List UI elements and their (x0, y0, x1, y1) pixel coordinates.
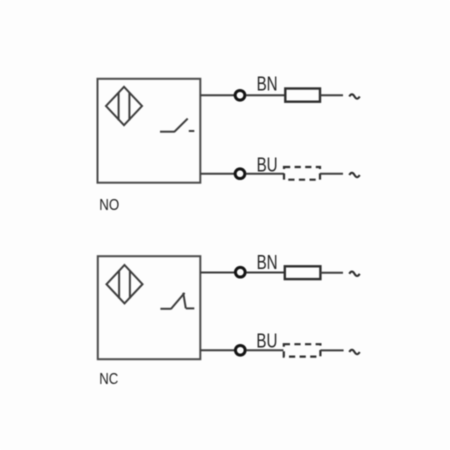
AC source tilde (BU, NC) (349, 350, 359, 354)
wire: load to source (BU, NO) (320, 173, 343, 175)
terminal circle BU (NO) (235, 169, 245, 179)
load resistor dashed BU (NC) (284, 344, 321, 356)
NC switch contact (160, 293, 194, 309)
load resistor BN (NO) (285, 89, 320, 102)
wire: box to BU terminal (NO) (200, 173, 234, 175)
wire: load to source (BN, NC) (320, 272, 343, 274)
terminal circle BN (NC) (235, 267, 245, 277)
svg-text:BN: BN (257, 74, 278, 96)
svg-text:NC: NC (99, 371, 118, 388)
sensor body box (NC) (98, 256, 201, 359)
sensor body box (NO) (98, 79, 201, 183)
wire: terminal to load (BU, NO) (246, 173, 284, 175)
load resistor dashed BU (NO) (284, 167, 320, 180)
wire: terminal to load (BU, NC) (246, 349, 283, 351)
AC source tilde (BN, NC) (349, 272, 359, 276)
proximity sensor symbol (diamond) NO (106, 87, 142, 125)
wire: load to source (BU, NC) (320, 349, 343, 351)
load resistor BN (NC) (285, 266, 321, 279)
proximity sensor symbol (diamond) NC (107, 265, 143, 303)
terminal circle BN (NO) (235, 90, 245, 100)
wire: box to BU terminal (NC) (200, 349, 234, 351)
AC source tilde (BN, NO) (349, 94, 359, 98)
svg-text:BU: BU (256, 330, 277, 352)
svg-text:NO: NO (99, 197, 119, 214)
wire: load to source (BN, NO) (320, 94, 343, 96)
svg-text:BN: BN (257, 252, 278, 274)
wire: terminal to load (BN, NO) (246, 94, 285, 96)
AC source tilde (BU, NO) (349, 173, 359, 177)
terminal circle BU (NC) (235, 345, 245, 355)
wire: box to BN terminal (NC) (200, 272, 234, 274)
wire: terminal to load (BN, NC) (246, 272, 285, 274)
wire: box to BN terminal (NO) (200, 94, 234, 96)
NO switch contact (160, 119, 194, 132)
